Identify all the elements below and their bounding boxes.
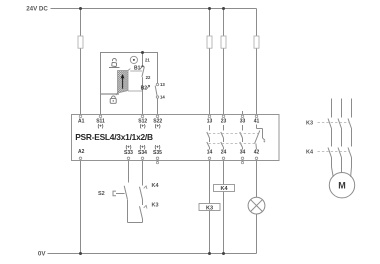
svg-text:(+): (+) (140, 145, 146, 150)
svg-text:K4: K4 (306, 149, 314, 155)
svg-text:24: 24 (221, 150, 227, 156)
svg-text:S33: S33 (124, 150, 133, 156)
svg-text:22: 22 (146, 75, 151, 80)
svg-text:K3: K3 (206, 205, 213, 211)
svg-text:0V: 0V (38, 251, 46, 258)
svg-text:34: 34 (240, 150, 246, 156)
svg-text:24V DC: 24V DC (26, 6, 48, 13)
svg-text:K3: K3 (306, 120, 313, 126)
svg-text:23: 23 (221, 119, 227, 125)
svg-text:B1: B1 (134, 66, 141, 72)
svg-text:K3: K3 (152, 202, 159, 208)
svg-text:A1: A1 (78, 119, 85, 125)
svg-text:S2: S2 (98, 191, 105, 197)
svg-text:42: 42 (254, 150, 260, 156)
svg-text:14: 14 (160, 95, 165, 100)
svg-text:(+): (+) (155, 124, 161, 129)
svg-text:(+): (+) (155, 145, 161, 150)
svg-text:(+): (+) (126, 145, 132, 150)
svg-text:A2: A2 (78, 149, 85, 155)
svg-text:B2: B2 (141, 86, 148, 92)
svg-text:33: 33 (240, 119, 246, 125)
svg-text:K4: K4 (152, 183, 160, 189)
svg-text:K4: K4 (220, 186, 228, 192)
svg-text:S34: S34 (138, 150, 147, 156)
svg-text:21: 21 (145, 57, 150, 62)
svg-text:14: 14 (207, 150, 213, 156)
svg-text:(+): (+) (98, 124, 104, 129)
svg-text:M: M (338, 180, 346, 190)
svg-text:(+): (+) (140, 124, 146, 129)
svg-text:41: 41 (254, 119, 260, 125)
svg-text:13: 13 (207, 119, 213, 125)
svg-text:PSR-ESL4/3x1/1x2/B: PSR-ESL4/3x1/1x2/B (75, 132, 153, 142)
svg-text:S35: S35 (153, 150, 162, 156)
svg-text:13: 13 (160, 82, 165, 87)
